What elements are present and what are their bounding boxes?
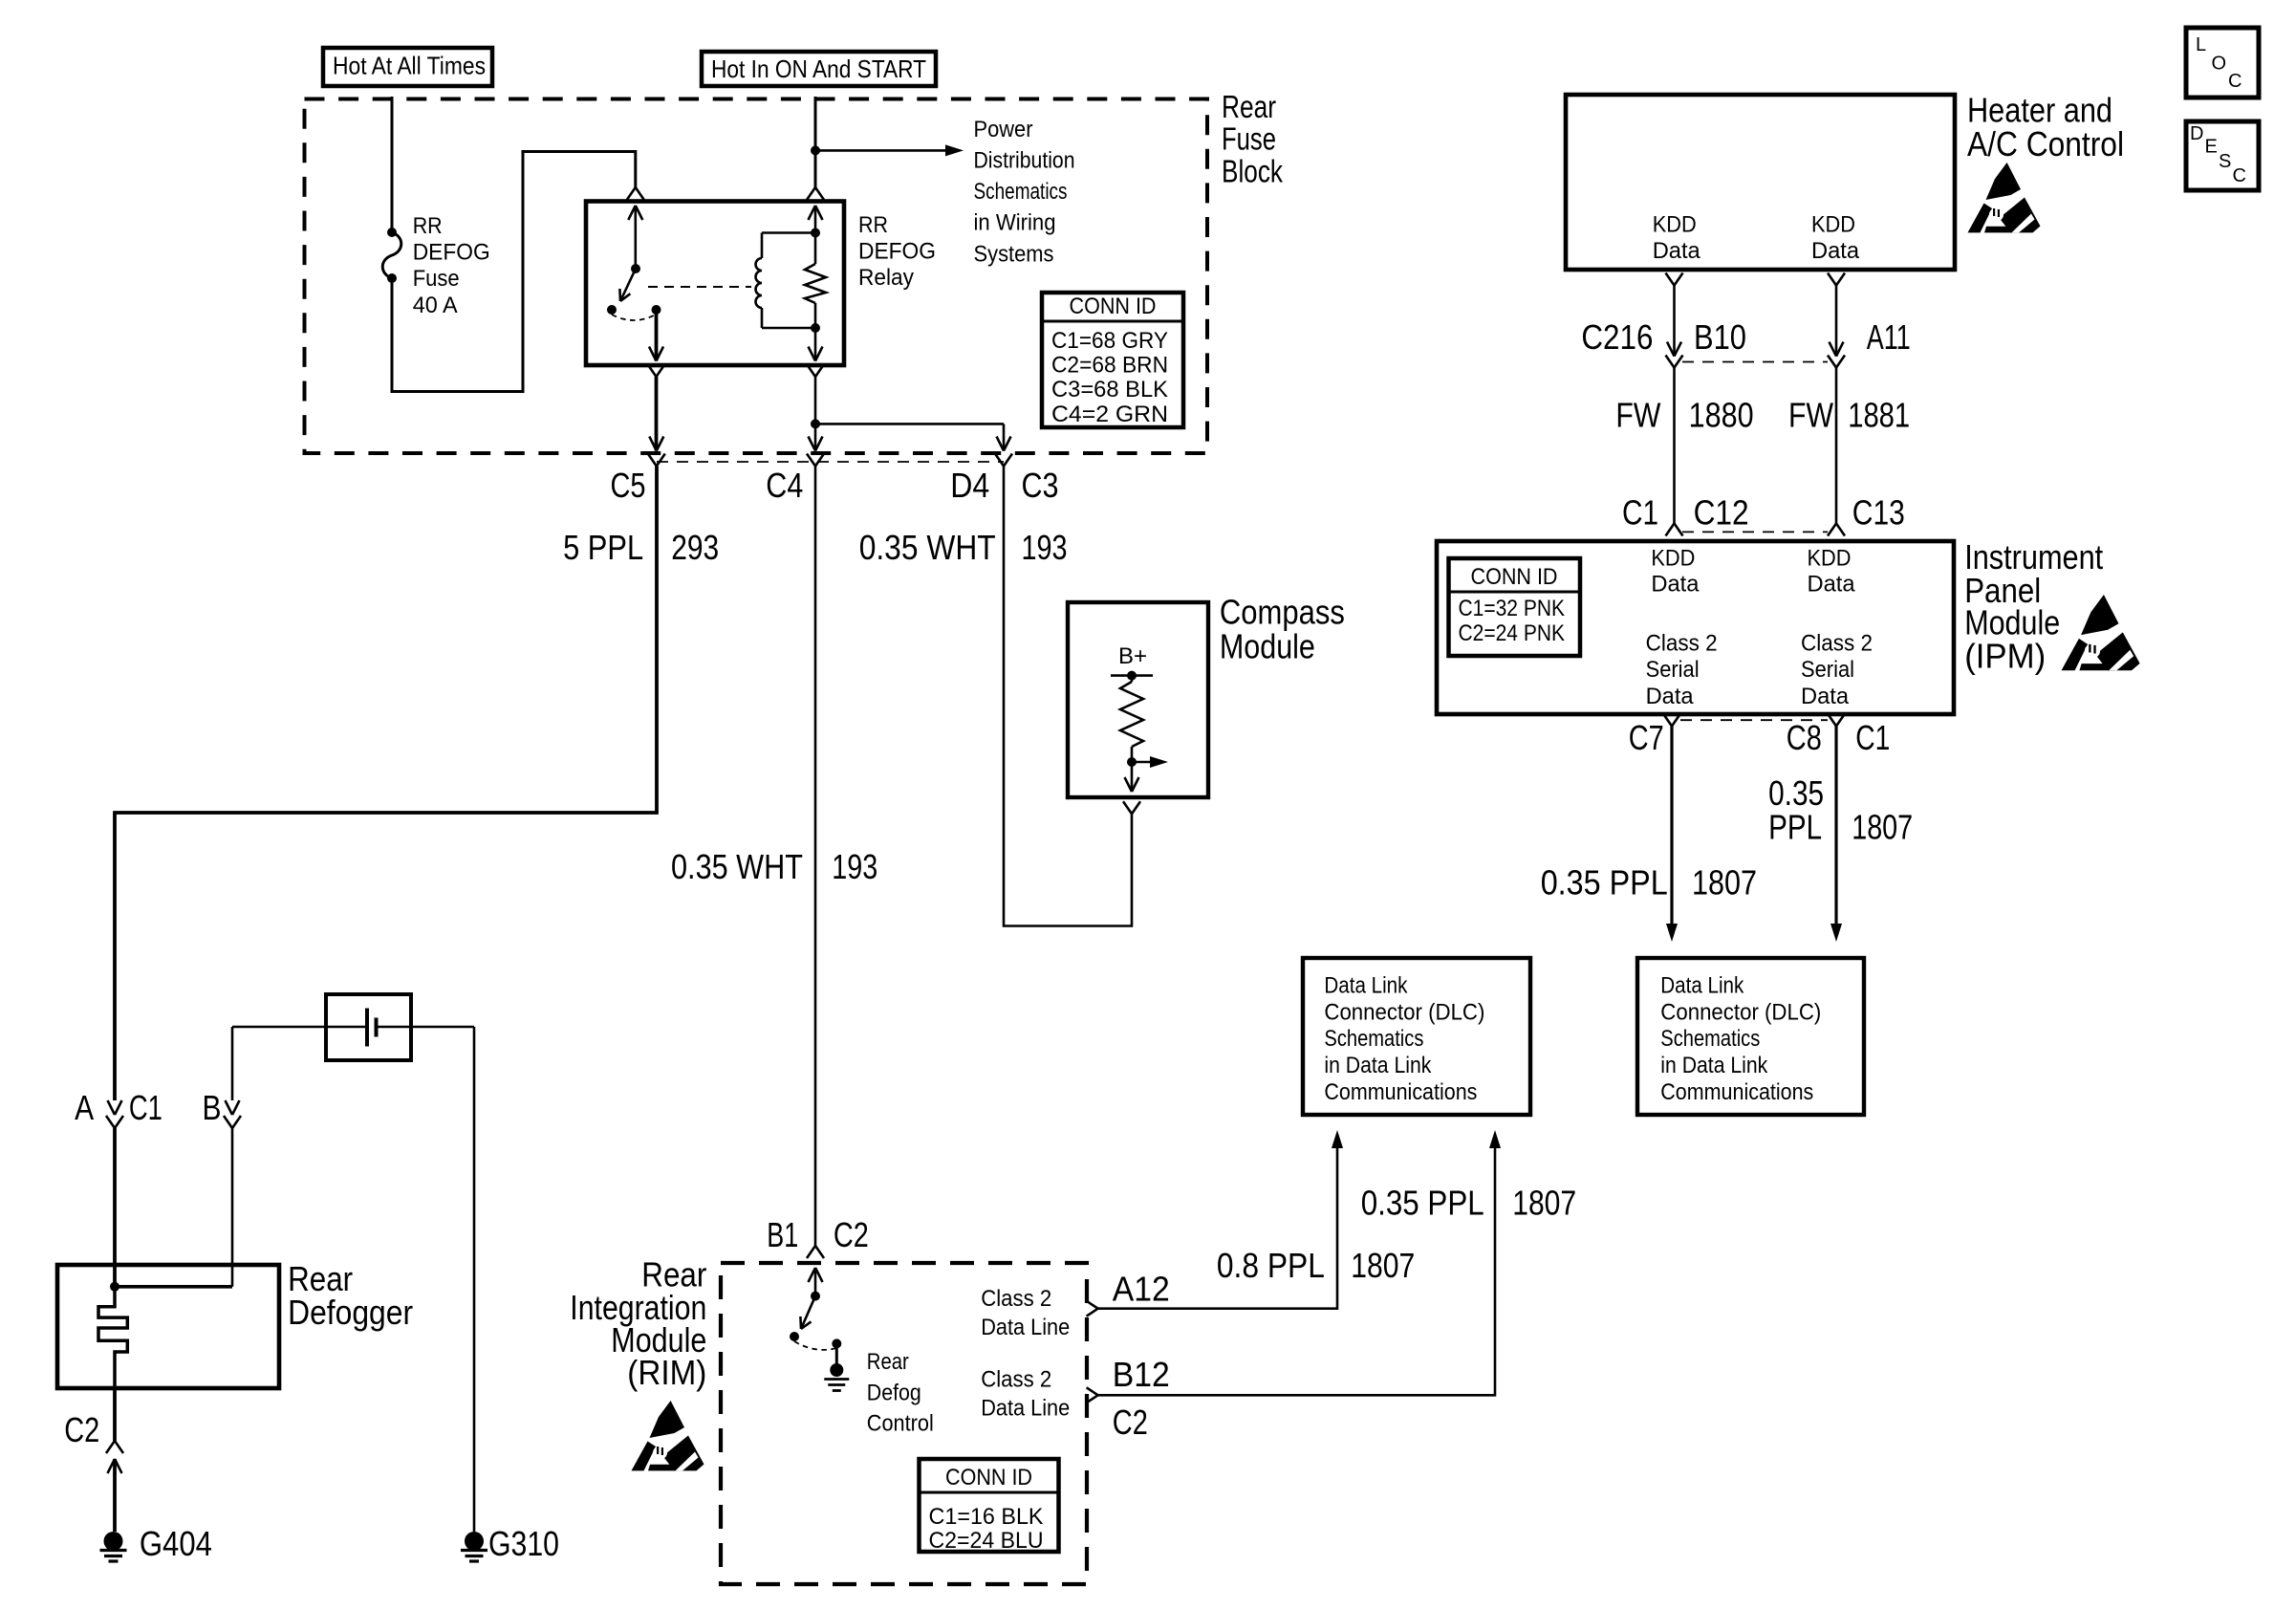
svg-text:(RIM): (RIM) (627, 1353, 706, 1392)
IPM bottom connector dashed line (1680, 719, 1828, 721)
svg-text:1807: 1807 (1351, 1246, 1415, 1285)
svg-text:Data: Data (1808, 572, 1856, 598)
wire: 0.35 WHT 193 to RIM (814, 467, 817, 1247)
label: A (75, 1088, 94, 1127)
label: D4 (950, 466, 989, 505)
svg-text:C12: C12 (1694, 493, 1749, 533)
label: A11 (1867, 317, 1911, 357)
label: KDD Data (IPM left) (1651, 546, 1700, 598)
pin: relay coil output (bottom right) (807, 328, 824, 377)
svg-text:DEFOG: DEFOG (413, 240, 490, 266)
wire: pin B up to capacitor (232, 1027, 326, 1100)
label: C7 (1629, 718, 1664, 757)
svg-text:Serial: Serial (1801, 657, 1854, 683)
connector B12 (RIM) (1087, 1387, 1098, 1403)
label: C5 (611, 466, 646, 505)
label: 0.35 WHT 193 (lower) (671, 847, 877, 886)
svg-text:C2: C2 (64, 1410, 99, 1449)
svg-text:C2: C2 (834, 1215, 869, 1254)
svg-text:Defogger: Defogger (288, 1293, 413, 1332)
svg-text:Systems: Systems (974, 242, 1054, 268)
label: Rear Defog Control (867, 1349, 934, 1437)
svg-text:KDD: KDD (1651, 546, 1695, 572)
svg-text:40 A: 40 A (413, 293, 458, 318)
connector C2 (rear defogger ground) (106, 1441, 123, 1473)
svg-text:Connector (DLC): Connector (DLC) (1324, 999, 1484, 1025)
svg-text:Fuse: Fuse (1222, 121, 1276, 157)
ground G404 (100, 1532, 127, 1561)
label: Class 2 Serial Data (right) (1801, 631, 1873, 710)
wire: class 2 data line B12 (1098, 1130, 1501, 1395)
wire: fuse to relay switch pin (392, 152, 636, 392)
svg-text:FW: FW (1788, 396, 1833, 435)
label: Compass Module (1220, 593, 1345, 666)
svg-text:Distribution: Distribution (974, 148, 1075, 174)
connector B1/C2 (RIM top) (807, 1246, 824, 1258)
svg-text:C1: C1 (1622, 493, 1658, 533)
svg-text:Power: Power (974, 117, 1033, 142)
svg-text:Defog: Defog (867, 1381, 921, 1406)
svg-text:193: 193 (832, 847, 877, 886)
svg-text:A11: A11 (1867, 317, 1911, 357)
svg-text:Data Line: Data Line (981, 1395, 1070, 1421)
connector D4/C3 (arrow/chevron) (995, 437, 1012, 467)
svg-text:5 PPL: 5 PPL (563, 528, 643, 567)
svg-text:CONN ID: CONN ID (1070, 294, 1157, 319)
svg-text:L: L (2196, 34, 2206, 55)
ground G310 (461, 1532, 487, 1561)
connector strip dashed line (657, 461, 1004, 463)
label: FW 1881 (1788, 396, 1910, 435)
label: Instrument Panel Module (IPM) (1964, 537, 2103, 676)
svg-text:Data: Data (1653, 238, 1701, 264)
svg-text:in Data Link: in Data Link (1324, 1053, 1432, 1078)
label: RR DEFOG Fuse 40 A (413, 213, 490, 318)
svg-text:DEFOG: DEFOG (858, 239, 936, 265)
resistor: relay suppression resistor (805, 229, 826, 328)
rear integration module boundary (dashed) (721, 1263, 1087, 1584)
heater and A/C control box (1566, 95, 1955, 270)
svg-text:in Wiring: in Wiring (974, 210, 1056, 236)
svg-text:C5: C5 (611, 466, 646, 505)
svg-text:B12: B12 (1113, 1355, 1170, 1394)
esd symbol (RIM) (632, 1401, 704, 1470)
label: KDD Data (IPM right) (1808, 546, 1856, 598)
svg-text:KDD: KDD (1653, 211, 1697, 237)
svg-text:O: O (2212, 54, 2227, 75)
label: C1 (129, 1088, 162, 1127)
svg-text:Schematics: Schematics (1324, 1026, 1423, 1052)
connector C13 (IPM right) (1828, 524, 1845, 536)
svg-text:C4=2 GRN: C4=2 GRN (1051, 402, 1168, 427)
svg-text:Serial: Serial (1646, 657, 1700, 683)
wire: 0.8 PPL 1807 (1098, 1130, 1343, 1309)
wire: branch to power distribution schematics (815, 144, 964, 156)
node: defogger grid top (110, 1282, 119, 1292)
svg-text:A: A (75, 1088, 94, 1127)
wire: relay switch output to C5 (655, 377, 659, 451)
pin: IPM C8/C1 (1828, 714, 1845, 943)
svg-text:KDD: KDD (1811, 211, 1855, 237)
svg-text:Class 2: Class 2 (1801, 631, 1873, 657)
svg-text:C2=24 BLU: C2=24 BLU (929, 1528, 1044, 1554)
svg-text:0.35 PPL: 0.35 PPL (1541, 863, 1668, 903)
node: compass output junction (1127, 757, 1137, 767)
svg-text:C1=32 PNK: C1=32 PNK (1459, 596, 1566, 621)
svg-text:C1=16 BLK: C1=16 BLK (929, 1504, 1044, 1530)
svg-text:Data: Data (1811, 238, 1860, 264)
svg-text:B10: B10 (1694, 317, 1746, 357)
label: Rear Defogger (288, 1259, 413, 1332)
svg-text:Communications: Communications (1324, 1079, 1477, 1105)
svg-text:E: E (2205, 137, 2218, 158)
power tag: Hot At All Times box (323, 48, 492, 86)
pin: relay switch input (top left) (627, 187, 644, 265)
connector C4 (arrow/chevron) (807, 437, 824, 467)
svg-text:C1=68 GRY: C1=68 GRY (1051, 328, 1168, 354)
wire: 193 branch to compass module (1004, 467, 1132, 926)
pin: heater KDD left (1666, 273, 1683, 357)
svg-text:Data Line: Data Line (981, 1315, 1070, 1340)
wire: ignition feed down to relay coil (814, 97, 817, 187)
svg-text:(IPM): (IPM) (1964, 637, 2046, 676)
svg-text:Module: Module (1220, 627, 1315, 666)
tag: LOC box (2186, 28, 2259, 98)
capacitor: noise suppressor box (326, 994, 411, 1060)
wire: FW 1880 (1673, 368, 1676, 524)
wire: relay coil output to C4 (814, 377, 817, 424)
esd symbol (heater) (1968, 163, 2041, 232)
svg-text:A12: A12 (1113, 1270, 1170, 1309)
svg-text:FW: FW (1615, 396, 1660, 435)
label: C2 (1113, 1403, 1148, 1442)
connector C1 pin A (rear defogger) (106, 1100, 123, 1128)
svg-text:0.8 PPL: 0.8 PPL (1217, 1246, 1325, 1285)
label: 0.8 PPL 1807 (1217, 1246, 1415, 1285)
label: C2 (834, 1215, 869, 1254)
data link connector schematics box (left) (1303, 958, 1530, 1115)
svg-text:0.35 WHT: 0.35 WHT (859, 528, 996, 567)
label: B+ (1118, 643, 1147, 669)
svg-text:Compass: Compass (1220, 593, 1345, 632)
svg-text:G310: G310 (488, 1524, 559, 1563)
label: 5 PPL 293 (563, 528, 719, 567)
label: C1 (1622, 493, 1658, 533)
svg-text:C2: C2 (1113, 1403, 1148, 1442)
svg-text:Hot At All Times: Hot At All Times (333, 52, 486, 80)
svg-text:C: C (2228, 71, 2242, 92)
svg-text:1807: 1807 (1512, 1184, 1576, 1223)
heating element: defogger grid (98, 1287, 127, 1388)
label: Heater and A/C Control (1967, 91, 2124, 164)
svg-text:0.35 PPL: 0.35 PPL (1361, 1184, 1484, 1223)
wire: pin A into defogger (113, 1128, 117, 1287)
label: C12 (1694, 493, 1749, 533)
wire: Hot At All Times feed to fuse (391, 97, 394, 232)
svg-text:C3: C3 (1022, 466, 1059, 505)
svg-text:Hot In ON And START: Hot In ON And START (711, 54, 926, 83)
svg-text:Class 2: Class 2 (981, 1286, 1051, 1312)
table: CONN ID (rear fuse block) (1042, 293, 1183, 427)
tag: DESC box (2186, 121, 2259, 190)
label: Rear Integration Module (RIM) (570, 1255, 706, 1393)
label: B10 (1694, 317, 1746, 357)
svg-text:B1: B1 (767, 1215, 798, 1254)
svg-text:B+: B+ (1118, 643, 1147, 669)
svg-text:Class 2: Class 2 (981, 1367, 1051, 1393)
svg-text:C1: C1 (1855, 718, 1890, 757)
svg-text:B: B (203, 1088, 222, 1127)
table: CONN ID (IPM) (1449, 558, 1581, 656)
svg-text:CONN ID: CONN ID (945, 1465, 1032, 1490)
svg-text:C1: C1 (129, 1088, 162, 1127)
node: B+ rail (1111, 671, 1153, 681)
relay K1: RR DEFOG Relay box (586, 202, 844, 366)
svg-text:Data: Data (1801, 684, 1850, 709)
pin: IPM C7 (1663, 714, 1680, 943)
svg-text:193: 193 (1022, 528, 1068, 567)
label: 0.35 PPL 1807 (class 2) (1361, 1184, 1577, 1223)
svg-text:Rear: Rear (1222, 89, 1276, 124)
svg-text:Data Link: Data Link (1324, 972, 1408, 998)
wire: FW 1881 (1835, 368, 1838, 524)
svg-text:D4: D4 (950, 466, 989, 505)
label: 0.35 PPL 1807 (right wire) (1768, 773, 1913, 847)
label: C3 (1022, 466, 1059, 505)
pin: relay switch output (bottom left) (648, 310, 665, 377)
svg-text:C216: C216 (1581, 317, 1653, 357)
label: KDD Data (heater right) (1811, 211, 1860, 263)
label: C1 (1855, 718, 1890, 757)
node: coil bottom junction (811, 323, 820, 333)
table: CONN ID (RIM) (920, 1459, 1059, 1554)
ground: RIM internal (824, 1343, 849, 1390)
svg-text:in Data Link: in Data Link (1660, 1053, 1768, 1078)
connector pin B (rear defogger) (224, 1100, 241, 1128)
svg-text:Relay: Relay (858, 265, 914, 291)
svg-text:RR: RR (858, 212, 888, 238)
svg-text:Control: Control (867, 1411, 934, 1437)
label: C8 (1787, 718, 1822, 757)
node: circuit 193 junction (811, 419, 820, 428)
rear defogger box (57, 1265, 279, 1388)
svg-text:G404: G404 (140, 1524, 212, 1563)
svg-text:1881: 1881 (1848, 396, 1910, 435)
capacitor element (326, 1009, 411, 1047)
label: B1 (767, 1215, 798, 1254)
label: C4 (766, 466, 803, 505)
pin: compass module bottom (1123, 762, 1140, 814)
IPM top connector dashed line (1682, 531, 1828, 533)
svg-text:1807: 1807 (1692, 863, 1757, 903)
svg-text:Connector (DLC): Connector (DLC) (1660, 999, 1821, 1025)
label: Class 2 Data Line (B12) (981, 1367, 1070, 1422)
svg-text:D: D (2190, 123, 2203, 144)
wire: defogger ground lead to C2 (113, 1388, 117, 1441)
wire: junction to D4 (815, 424, 1004, 450)
label: C216 (1581, 317, 1653, 357)
svg-text:Schematics: Schematics (974, 179, 1068, 205)
label: B12 (1113, 1355, 1170, 1394)
wire: capacitor to G310 (411, 1027, 474, 1532)
svg-text:Data Link: Data Link (1660, 972, 1744, 998)
label: C13 (1852, 493, 1905, 533)
svg-text:C13: C13 (1852, 493, 1905, 533)
svg-text:Schematics: Schematics (1660, 1026, 1760, 1052)
wire: defogger sense lead B (231, 1128, 234, 1287)
svg-text:C2=24 PNK: C2=24 PNK (1459, 620, 1566, 646)
node: ignition feed junction (811, 145, 820, 155)
label: B (203, 1088, 222, 1127)
svg-text:C: C (2233, 165, 2246, 186)
label: Rear Fuse Block (1222, 89, 1283, 189)
fuse: RR DEFOG Fuse 40 A (382, 228, 401, 283)
pin: RIM rear defog input (809, 1268, 823, 1292)
node: coil top junction (811, 228, 820, 238)
instrument panel module box (1437, 541, 1954, 714)
wire: C2 to G404 (113, 1459, 117, 1532)
svg-text:C4: C4 (766, 466, 803, 505)
svg-text:S: S (2219, 151, 2231, 172)
svg-text:Class 2: Class 2 (1646, 631, 1718, 657)
in-line connector C216 (1666, 342, 1846, 368)
wire: 5 PPL 293 run (115, 467, 657, 1101)
label: C2 (64, 1410, 99, 1449)
svg-text:RR: RR (413, 213, 443, 239)
dashed link: armature to coil (648, 286, 751, 288)
resistor: compass pull-up (1120, 676, 1143, 762)
wire: compass output arrow (1132, 756, 1168, 768)
coil: relay coil winding (756, 233, 816, 329)
connector A12 (RIM) (1087, 1301, 1098, 1316)
label: Class 2 Serial Data (left) (1646, 631, 1718, 710)
pin: relay coil input (top right) (807, 187, 824, 229)
connector C1/C12 (IPM left) (1666, 524, 1683, 536)
svg-text:Rear: Rear (867, 1349, 909, 1375)
label: FW 1880 (1615, 396, 1753, 435)
pin: heater KDD right (1828, 273, 1845, 357)
svg-text:PPL: PPL (1768, 808, 1822, 847)
rear fuse block boundary (dashed) (305, 99, 1208, 454)
svg-text:1880: 1880 (1689, 396, 1754, 435)
svg-text:Communications: Communications (1660, 1079, 1813, 1105)
esd symbol (IPM) (2062, 595, 2140, 670)
svg-text:C2=68 BRN: C2=68 BRN (1051, 353, 1168, 379)
data link connector schematics box (right) (1637, 958, 1864, 1115)
svg-text:Fuse: Fuse (413, 266, 460, 292)
svg-text:0.35 WHT: 0.35 WHT (671, 847, 803, 886)
label: Power Distribution Schematics in Wiring Systems (974, 117, 1075, 268)
svg-text:A/C Control: A/C Control (1967, 124, 2124, 163)
connector C5 (arrow/chevron) (648, 437, 665, 467)
svg-text:Data: Data (1651, 572, 1700, 598)
svg-text:KDD: KDD (1808, 546, 1852, 572)
label: 0.35 PPL 1807 (left wire) (1541, 863, 1757, 903)
label: A12 (1113, 1270, 1170, 1309)
svg-text:Block: Block (1222, 154, 1283, 189)
switch: RIM rear defog control (790, 1292, 841, 1350)
label: RR DEFOG Relay (858, 212, 936, 291)
svg-text:C3=68 BLK: C3=68 BLK (1051, 377, 1168, 402)
svg-text:293: 293 (671, 528, 719, 567)
svg-text:CONN ID: CONN ID (1471, 564, 1558, 590)
svg-text:C8: C8 (1787, 718, 1822, 757)
label: KDD Data (heater left) (1653, 211, 1701, 263)
wire: junction down to C4 (814, 424, 817, 450)
label: G310 (488, 1524, 559, 1563)
svg-text:Data: Data (1646, 684, 1695, 709)
label: Class 2 Data Line (A12) (981, 1286, 1070, 1340)
svg-text:1807: 1807 (1852, 808, 1913, 847)
svg-text:C7: C7 (1629, 718, 1664, 757)
label: G404 (140, 1524, 212, 1563)
switch: relay armature (607, 264, 661, 320)
power tag: Hot In ON And START box (702, 52, 936, 86)
wire: defogger internal link (115, 1285, 232, 1289)
label: 0.35 WHT 193 (upper) (859, 528, 1068, 567)
compass module box (1068, 602, 1208, 797)
